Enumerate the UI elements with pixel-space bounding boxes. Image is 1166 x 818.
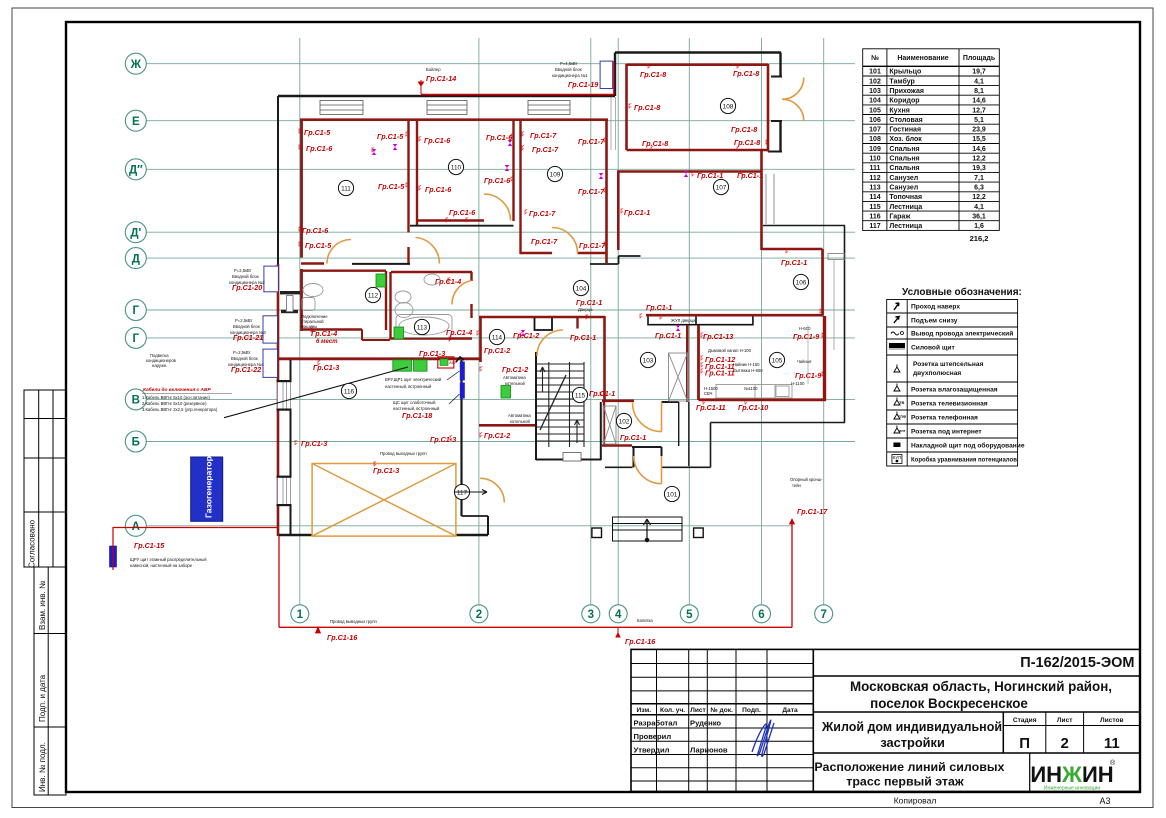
svg-text:19,7: 19,7 — [972, 69, 986, 76]
svg-text:Прихожая: Прихожая — [889, 88, 924, 95]
svg-text:106: 106 — [869, 117, 881, 124]
svg-text:Силовой щит: Силовой щит — [911, 343, 955, 351]
red line garage left — [278, 536, 280, 627]
red line top wall overlay — [421, 94, 614, 96]
room 103 bottom wall — [602, 399, 634, 402]
room 105 left wall — [697, 325, 700, 400]
svg-text:Гр.С1-5: Гр.С1-5 — [304, 128, 331, 137]
svg-text:Вводной блок: Вводной блок — [232, 274, 259, 279]
door room 117 — [480, 478, 504, 502]
svg-text:23,9: 23,9 — [972, 127, 986, 134]
stamp box Подп. и дата — [34, 634, 66, 728]
group labels red — [134, 69, 828, 646]
window top wall — [528, 101, 570, 115]
door room 114 — [537, 330, 563, 356]
svg-text:Ларионов: Ларионов — [690, 746, 728, 755]
svg-text:117: 117 — [869, 223, 880, 230]
svg-text:Б: Б — [132, 437, 140, 449]
room 105 right wall — [823, 316, 826, 401]
window garage 1 — [278, 381, 291, 410]
room 111 left wall — [300, 119, 303, 258]
svg-text:Площадь: Площадь — [963, 55, 996, 62]
door jamb stub corridor — [576, 317, 578, 329]
svg-text:Р=4,5кВт: Р=4,5кВт — [560, 61, 578, 66]
svg-text:Гр.С1-6: Гр.С1-6 — [449, 208, 476, 217]
svg-text:Автоматика: Автоматика — [503, 375, 526, 380]
svg-text:Г: Г — [133, 333, 140, 345]
svg-text:П: П — [1019, 735, 1030, 752]
red line left C1-15 — [113, 528, 279, 571]
svg-text:104: 104 — [869, 98, 881, 105]
sink room 113 top — [424, 274, 440, 285]
svg-text:Накладной щит под оборудование: Накладной щит под оборудование — [911, 441, 1025, 449]
garage right wall — [460, 360, 462, 516]
room 110 left wall — [416, 119, 418, 226]
room 108 — [720, 98, 735, 113]
svg-text:Дымовой канал Н-100: Дымовой канал Н-100 — [708, 348, 752, 353]
svg-text:15,5: 15,5 — [972, 136, 986, 143]
svg-text:Дата: Дата — [782, 707, 798, 714]
svg-text:Розетка телевизионная: Розетка телевизионная — [911, 400, 988, 407]
svg-text:12,2: 12,2 — [972, 156, 986, 163]
vent shaft room 102 — [604, 406, 617, 444]
room 106 bottom wall — [646, 314, 823, 317]
svg-text:3.Кабель ВВГнг 2х2,5 (упр.гене: 3.Кабель ВВГнг 2х2,5 (упр.генератора) — [142, 407, 218, 412]
stamp box Взам. инв. № — [34, 567, 66, 634]
svg-text:котельной: котельной — [510, 419, 530, 424]
magenta socket marks — [372, 140, 688, 336]
porch pillar right — [694, 528, 704, 538]
exterior wall top-right — [615, 51, 781, 54]
svg-text:102: 102 — [619, 418, 630, 425]
red tick C1-14 — [419, 80, 424, 94]
staircase 115 — [537, 362, 584, 447]
green shield boiler room — [501, 386, 511, 399]
room 107 — [713, 179, 728, 194]
svg-text:Гр.С1-3: Гр.С1-3 — [430, 435, 456, 444]
svg-text:111: 111 — [341, 185, 351, 192]
svg-text:1,6: 1,6 — [974, 223, 984, 230]
red line riser top — [613, 61, 615, 95]
room 107 top wall — [617, 170, 762, 173]
svg-text:Гр.С1-11: Гр.С1-11 — [705, 369, 735, 378]
svg-text:Московская область, Ногинский: Московская область, Ногинский район, — [850, 679, 1112, 694]
room 103 right wall — [686, 325, 689, 402]
svg-text:Е: Е — [132, 116, 140, 128]
room 111 bottom wall left — [301, 262, 324, 264]
svg-text:Гр.С1-1: Гр.С1-1 — [624, 208, 650, 217]
svg-text:Гр.С1-3: Гр.С1-3 — [419, 349, 445, 358]
svg-text:кондиционера №1: кондиционера №1 — [552, 73, 588, 78]
room 103 — [640, 352, 655, 367]
svg-text:Гостиная: Гостиная — [889, 127, 921, 134]
bath room 113 — [396, 315, 452, 338]
svg-text:105: 105 — [772, 357, 783, 364]
room 105 — [769, 352, 784, 367]
porch pillar left — [592, 528, 602, 538]
svg-text:Гр.С1-1: Гр.С1-1 — [570, 333, 596, 342]
svg-text:Гр.С1-1: Гр.С1-1 — [655, 331, 681, 340]
terrace window lines — [766, 174, 845, 260]
svg-text:настенный, встроенный: настенный, встроенный — [393, 406, 440, 411]
svg-text:Спальня: Спальня — [889, 146, 919, 153]
svg-text:Гр.С1-6: Гр.С1-6 — [484, 176, 511, 185]
room 109 bottom wall right — [578, 252, 608, 254]
room 101 — [664, 486, 679, 501]
svg-text:®: ® — [1110, 759, 1116, 767]
svg-text:Гр.С1-16: Гр.С1-16 — [625, 637, 656, 646]
svg-text:Калитка: Калитка — [637, 618, 653, 623]
room 111 right wall lower — [407, 247, 409, 264]
svg-text:№: № — [871, 54, 879, 62]
svg-text:Спальня: Спальня — [889, 165, 919, 172]
room 113 bottom wall — [390, 337, 472, 339]
svg-text:котельной: котельной — [505, 381, 525, 386]
svg-text:Лестница: Лестница — [889, 223, 922, 230]
exterior wall top — [278, 95, 615, 97]
svg-text:Гр.С1-8: Гр.С1-8 — [640, 70, 666, 79]
stamp box Инв. № подл. — [34, 727, 66, 795]
room 114 left wall — [479, 317, 482, 362]
wall hatch left of room 112 — [280, 291, 300, 294]
room 102 — [616, 413, 631, 428]
red tick C1-17 top — [790, 519, 795, 524]
left stamp upper grid — [24, 390, 66, 567]
room 109 left wall — [519, 119, 521, 254]
blue box C1-15 — [110, 546, 117, 567]
svg-text:Гр.С1-3: Гр.С1-3 — [373, 466, 399, 475]
svg-text:117: 117 — [457, 489, 468, 496]
garage bottom wall right — [456, 534, 488, 536]
door jamb wall right upper — [779, 53, 781, 77]
svg-text:№ док.: № док. — [710, 707, 733, 714]
door room 113 — [452, 281, 472, 305]
svg-text:Гр.С1-2: Гр.С1-2 — [502, 365, 528, 374]
room 110 bottom wall — [417, 219, 484, 221]
svg-text:Тамбур: Тамбур — [889, 77, 914, 85]
svg-text:7: 7 — [820, 609, 826, 621]
garage top wall — [279, 357, 480, 360]
terrace right wall — [844, 226, 846, 423]
svg-text:Коридор: Коридор — [889, 98, 919, 105]
svg-text:Д': Д' — [130, 227, 141, 239]
room 114 door step — [535, 318, 553, 330]
room 112 — [365, 287, 380, 302]
arrow room 117 — [455, 490, 487, 495]
room 108 right wall — [767, 64, 770, 152]
svg-text:Гр.С1-1: Гр.С1-1 — [697, 171, 723, 180]
wall top rooms 111-110-109 — [300, 118, 608, 121]
room 106 — [793, 274, 808, 289]
svg-text:Гр.С1-1: Гр.С1-1 — [589, 389, 615, 398]
svg-text:Крыльцо: Крыльцо — [889, 69, 921, 76]
svg-text:104: 104 — [576, 285, 587, 292]
svg-text:6 мест: 6 мест — [316, 339, 338, 345]
svg-text:115: 115 — [575, 392, 586, 399]
svg-text:Гараж: Гараж — [889, 214, 911, 221]
svg-text:КУП: КУП — [893, 455, 902, 460]
svg-text:Утвердил: Утвердил — [634, 746, 670, 755]
svg-text:Гр.С1-8: Гр.С1-8 — [731, 125, 757, 134]
svg-text:Гр.С1-15: Гр.С1-15 — [134, 541, 165, 550]
svg-text:Вводной блок: Вводной блок — [233, 324, 260, 329]
svg-text:Лист: Лист — [1057, 717, 1073, 724]
red line right C1-17 — [791, 519, 793, 627]
title block — [631, 649, 1140, 806]
svg-text:навесной, настенный на заборе: навесной, настенный на заборе — [130, 563, 193, 568]
room 102 bottom wall — [602, 444, 632, 446]
corridor wall under room 110 — [410, 225, 514, 227]
vent shaft room 103 — [669, 353, 688, 401]
gas generator blue box — [191, 457, 223, 521]
stair window — [563, 453, 581, 462]
svg-text:Д″: Д″ — [129, 165, 143, 177]
svg-text:110: 110 — [869, 156, 880, 163]
svg-text:108: 108 — [869, 136, 881, 143]
svg-text:114: 114 — [492, 334, 503, 341]
svg-text:Кабели до включения с АВР: Кабели до включения с АВР — [143, 386, 211, 393]
room 110 right wall — [512, 119, 514, 221]
wall 117 top — [479, 424, 537, 427]
svg-text:4: 4 — [615, 609, 622, 621]
svg-text:Гр.С1-11: Гр.С1-11 — [696, 403, 726, 412]
svg-text:Гр.С1-7: Гр.С1-7 — [530, 131, 557, 140]
room 107 right wall — [760, 150, 763, 250]
room 117 — [454, 484, 469, 499]
garage bottom wall left — [279, 534, 312, 536]
svg-text:Гр.С1-19: Гр.С1-19 — [568, 80, 598, 89]
tiny black annotations — [130, 61, 823, 624]
svg-text:Гр.С1-8: Гр.С1-8 — [634, 103, 660, 112]
room 112 bottom jog — [361, 330, 363, 341]
tambour right wall inner — [678, 402, 680, 446]
room 112 top wall — [301, 270, 386, 272]
svg-text:Спальня: Спальня — [889, 156, 919, 163]
room 111 bottom wall black — [352, 263, 410, 265]
svg-text:Гр.С1-1: Гр.С1-1 — [781, 258, 807, 267]
svg-text:Розетка телефонная: Розетка телефонная — [911, 414, 978, 421]
svg-text:6,3: 6,3 — [974, 185, 984, 192]
blue outline box C1-21 — [263, 316, 278, 343]
svg-text:Гр.С1-10: Гр.С1-10 — [738, 403, 768, 412]
svg-text:Н-1100: Н-1100 — [791, 381, 805, 386]
red line bottom C1-16 — [279, 626, 792, 628]
svg-text:кондиционера №4: кондиционера №4 — [228, 362, 264, 367]
svg-text:ТЛФ: ТЛФ — [898, 415, 907, 419]
room 102 left wall — [603, 402, 605, 446]
svg-text:6: 6 — [758, 609, 764, 621]
svg-text:Кол. уч.: Кол. уч. — [660, 707, 685, 714]
svg-text:Гр.С1-1: Гр.С1-1 — [576, 298, 602, 307]
svg-text:Гр.С1-6: Гр.С1-6 — [306, 144, 333, 153]
door stub — [661, 447, 663, 456]
window top wall — [320, 101, 363, 115]
svg-text:Инв. № подл.: Инв. № подл. — [38, 742, 47, 792]
socket marks — [299, 64, 824, 467]
svg-text:107: 107 — [716, 184, 727, 191]
svg-text:4,1: 4,1 — [974, 78, 984, 85]
room 113 top wall — [391, 271, 472, 273]
garage left wall inner face — [290, 360, 292, 381]
room 105 bottom wall — [699, 398, 827, 401]
svg-text:застройки: застройки — [880, 735, 944, 750]
АВР red box — [438, 357, 454, 368]
red tick C1-16 gate — [616, 627, 620, 637]
room 106 right wall — [821, 249, 824, 316]
svg-text:Проход наверх: Проход наверх — [911, 304, 960, 311]
svg-text:ЩРУ щит этажный распределитель: ЩРУ щит этажный распределительный — [130, 557, 207, 562]
svg-text:Изм.: Изм. — [637, 707, 652, 714]
svg-text:Гр.С1-18: Гр.С1-18 — [402, 411, 432, 420]
room 116 — [341, 383, 356, 398]
svg-text:2.Кабель ВВГнг 5х10 (резервное: 2.Кабель ВВГнг 5х10 (резервное) — [142, 401, 207, 406]
room 102 right wall — [688, 402, 690, 466]
svg-text:Взам. инв. №: Взам. инв. № — [38, 580, 47, 630]
room table — [863, 49, 1000, 243]
svg-text:Лист: Лист — [690, 707, 706, 714]
svg-text:Розетка под интернет: Розетка под интернет — [911, 428, 982, 435]
room 108 left wall — [625, 64, 628, 150]
room 109 bottom wall left — [520, 252, 552, 254]
svg-text:Розетка влагозащищенная: Розетка влагозащищенная — [911, 386, 998, 393]
svg-text:12,2: 12,2 — [972, 194, 986, 201]
svg-text:Гр.С1-2: Гр.С1-2 — [484, 431, 510, 440]
garage gate cross — [312, 464, 456, 537]
svg-text:Гр.С1-6: Гр.С1-6 — [302, 226, 329, 235]
svg-text:Проверил: Проверил — [634, 732, 672, 741]
room 112 right wall — [385, 271, 387, 330]
svg-text:Гр.С1-6: Гр.С1-6 — [424, 136, 451, 145]
svg-text:ЖУЛ дверца: ЖУЛ дверца — [671, 318, 696, 323]
svg-text:тейн: тейн — [792, 483, 802, 488]
svg-text:101: 101 — [667, 491, 678, 498]
room 109 right wall — [605, 119, 608, 263]
svg-text:5,1: 5,1 — [974, 117, 984, 124]
door room 111 — [327, 240, 351, 264]
svg-text:112: 112 — [368, 292, 379, 299]
svg-text:1.Кабель ВВГнг 5х10 (осн.питан: 1.Кабель ВВГнг 5х10 (осн.питание) — [142, 395, 211, 400]
svg-text:трасс первый этаж: трасс первый этаж — [846, 775, 964, 789]
tambour top wall black — [662, 401, 679, 403]
svg-text:Р=2,5кВт: Р=2,5кВт — [235, 318, 253, 323]
svg-text:Гр.С1-5: Гр.С1-5 — [377, 132, 404, 141]
leader check mark — [456, 357, 464, 362]
door room 109 — [552, 228, 578, 254]
svg-text:Руденко: Руденко — [690, 719, 721, 728]
svg-text:Кухня: Кухня — [889, 107, 909, 114]
svg-text:Хоз. блок: Хоз. блок — [889, 135, 922, 143]
svg-text:Автоматика: Автоматика — [508, 413, 531, 418]
terrace bottom wall — [711, 422, 846, 424]
svg-text:Условные обозначения:: Условные обозначения: — [902, 286, 1022, 298]
svg-text:Расположение линий силовых: Расположение линий силовых — [814, 760, 1004, 774]
svg-text:СВЧ: СВЧ — [704, 391, 713, 396]
green shield garage 2 — [414, 360, 428, 371]
room 114 — [489, 329, 504, 344]
svg-text:Столовая: Столовая — [889, 117, 922, 124]
svg-text:116: 116 — [344, 388, 355, 395]
dining glass wall line — [833, 260, 835, 350]
svg-text:Гр.С1-7: Гр.С1-7 — [529, 209, 556, 218]
svg-text:Гр.С1-14: Гр.С1-14 — [426, 74, 456, 83]
room 113 right wall upper — [470, 272, 472, 281]
svg-text:Газогенератор: Газогенератор — [204, 456, 214, 518]
svg-text:105: 105 — [869, 107, 881, 114]
svg-text:Гр.С1-16: Гр.С1-16 — [327, 633, 358, 642]
svg-text:2: 2 — [1061, 735, 1069, 752]
svg-text:Топочная: Топочная — [889, 194, 922, 201]
svg-text:Г: Г — [133, 305, 140, 317]
svg-text:12,7: 12,7 — [972, 107, 986, 114]
svg-text:Копировал: Копировал — [894, 796, 937, 806]
svg-text:106: 106 — [796, 279, 807, 286]
svg-text:Вытяжка Н-650: Вытяжка Н-650 — [733, 368, 763, 373]
svg-text:Опорный кронш-: Опорный кронш- — [790, 477, 823, 482]
svg-text:3: 3 — [588, 609, 594, 621]
svg-text:113: 113 — [869, 185, 880, 192]
svg-text:Вывод провода электрический: Вывод провода электрический — [911, 329, 1013, 337]
svg-text:ВРУ,ЩР1 щит электрический: ВРУ,ЩР1 щит электрический — [385, 377, 442, 382]
axis grid — [125, 38, 855, 623]
window top wall — [427, 101, 467, 115]
room 112 bottom wall 2 — [362, 339, 390, 341]
svg-text:П-162/2015-ЭОМ: П-162/2015-ЭОМ — [1020, 655, 1134, 671]
svg-text:116: 116 — [869, 214, 880, 221]
tambour 117 corner — [487, 516, 489, 535]
niche with door МУЛ — [648, 317, 753, 325]
svg-text:Гр.С1-8: Гр.С1-8 — [733, 69, 759, 78]
svg-text:Подп. и дата: Подп. и дата — [38, 674, 47, 722]
svg-text:Гр.С1-4: Гр.С1-4 — [311, 329, 337, 338]
svg-text:Гр.С1-13: Гр.С1-13 — [703, 332, 733, 341]
svg-text:Дверца: Дверца — [578, 307, 593, 312]
kitchen cupboard line — [807, 325, 809, 384]
svg-text:Д: Д — [132, 253, 140, 265]
svg-text:109: 109 — [550, 171, 561, 178]
svg-text:поселок Воскресенское: поселок Воскресенское — [870, 696, 1028, 711]
tambour mid wall black — [632, 446, 662, 448]
corridor wall black — [590, 263, 619, 265]
svg-text:Гр.С1-7: Гр.С1-7 — [578, 187, 605, 196]
blue outline box C1-19 — [600, 61, 613, 88]
svg-text:Провод выводных групп: Провод выводных групп — [330, 619, 377, 624]
svg-text:Согласовано: Согласовано — [28, 519, 37, 568]
svg-text:109: 109 — [869, 146, 881, 153]
svg-text:114: 114 — [869, 194, 880, 201]
svg-text:Гр.С1-17: Гр.С1-17 — [797, 507, 828, 516]
svg-text:102: 102 — [869, 78, 881, 85]
room 106 top wall — [762, 248, 823, 251]
svg-text:4,1: 4,1 — [974, 204, 984, 211]
kitchen counter room 105 — [716, 385, 792, 399]
svg-text:8,1: 8,1 — [974, 88, 984, 95]
svg-text:Разработал: Разработал — [634, 719, 678, 728]
stair block right wall — [600, 402, 602, 460]
green shield garage 1 — [393, 360, 412, 371]
toilet room 113 — [395, 291, 413, 318]
door room 110 — [484, 194, 511, 221]
svg-text:112: 112 — [869, 175, 880, 182]
svg-text:Бойлер: Бойлер — [426, 67, 441, 72]
terrace left wall — [710, 423, 712, 468]
svg-text:Гр.С1-8: Гр.С1-8 — [642, 139, 668, 148]
svg-text:Гр.С1-3: Гр.С1-3 — [301, 439, 327, 448]
svg-text:Гр.С1-2: Гр.С1-2 — [513, 331, 539, 340]
corridor step — [618, 256, 620, 264]
svg-text:Гр.С1-7: Гр.С1-7 — [579, 241, 606, 250]
svg-text:Гр.С1-1: Гр.С1-1 — [646, 303, 672, 312]
svg-text:Жилой дом индивидуальной: Жилой дом индивидуальной — [821, 719, 1002, 734]
